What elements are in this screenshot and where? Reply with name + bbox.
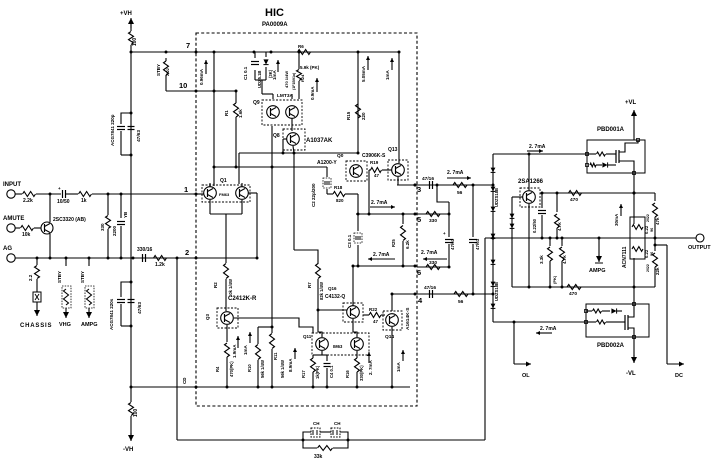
svg-text:4.7k: 4.7k xyxy=(562,255,567,264)
svg-text:FM63: FM63 xyxy=(219,192,230,197)
svg-text:OL: OL xyxy=(522,373,530,379)
svg-text:C3 0.1: C3 0.1 xyxy=(347,234,352,248)
svg-text:6.2k: 6.2k xyxy=(405,240,410,249)
svg-text:4.7k: 4.7k xyxy=(557,222,562,231)
svg-text:330: 330 xyxy=(429,260,437,266)
svg-text:YB: YB xyxy=(123,211,128,218)
svg-text:Q13: Q13 xyxy=(388,147,398,153)
svg-text:R22: R22 xyxy=(369,307,378,312)
svg-text:CH: CH xyxy=(313,421,320,426)
svg-text:R11: R11 xyxy=(273,352,278,360)
svg-text:R15: R15 xyxy=(346,111,351,120)
svg-text:30mA: 30mA xyxy=(614,213,619,226)
svg-text:R7: R7 xyxy=(307,282,312,288)
svg-text:22k: 22k xyxy=(655,267,660,275)
svg-text:2.2k: 2.2k xyxy=(23,198,33,204)
svg-text:1mA: 1mA xyxy=(243,344,248,355)
svg-text:47/16: 47/16 xyxy=(424,285,436,291)
svg-text:330: 330 xyxy=(429,218,437,224)
svg-text:STBY: STBY xyxy=(80,271,85,283)
svg-text:+VH: +VH xyxy=(120,11,132,17)
svg-text:47/63: 47/63 xyxy=(450,238,455,250)
svg-text:-VH: -VH xyxy=(123,447,133,453)
svg-text:33k: 33k xyxy=(314,454,323,460)
svg-text:CH: CH xyxy=(334,421,341,426)
svg-text:R25: R25 xyxy=(391,239,396,247)
svg-text:DC: DC xyxy=(675,373,683,379)
svg-text:HIC: HIC xyxy=(265,7,284,19)
svg-text:2200: 2200 xyxy=(112,225,117,236)
svg-text:C4132-Q: C4132-Q xyxy=(325,294,345,300)
svg-text:ACN7111: ACN7111 xyxy=(622,246,628,268)
svg-text:2. 7mA: 2. 7mA xyxy=(371,200,388,206)
svg-text:56: 56 xyxy=(458,299,464,305)
svg-text:5: 5 xyxy=(417,215,421,224)
svg-text:C2412K-R: C2412K-R xyxy=(228,296,257,302)
svg-text:R19: R19 xyxy=(370,160,379,165)
svg-text:47/63: 47/63 xyxy=(475,238,480,250)
svg-text:47: 47 xyxy=(373,319,379,324)
svg-text:R1: R1 xyxy=(224,110,229,116)
svg-text:10/50: 10/50 xyxy=(57,199,70,205)
svg-text:330/16: 330/16 xyxy=(137,247,153,253)
svg-text:+: + xyxy=(58,186,61,191)
svg-text:Q16: Q16 xyxy=(328,286,337,291)
svg-text:PBD002A: PBD002A xyxy=(597,343,625,349)
svg-text:2. 7mA: 2. 7mA xyxy=(540,326,557,332)
svg-text:330(PK): 330(PK) xyxy=(359,365,364,381)
svg-text:2SA1266: 2SA1266 xyxy=(518,179,544,185)
svg-text:+: + xyxy=(443,231,446,236)
svg-text:2: 2 xyxy=(185,248,189,257)
svg-text:(1F1B91a): (1F1B91a) xyxy=(292,72,296,90)
svg-text:1mA: 1mA xyxy=(272,69,277,80)
svg-text:C3906K-S: C3906K-S xyxy=(362,153,386,159)
svg-text:7: 7 xyxy=(186,41,190,50)
svg-text:VHG: VHG xyxy=(59,322,71,328)
svg-text:56k 1/4W: 56k 1/4W xyxy=(280,360,285,378)
svg-text:3.3k: 3.3k xyxy=(539,255,544,264)
svg-text:R17: R17 xyxy=(301,370,306,378)
svg-text:R2: R2 xyxy=(213,282,218,288)
svg-text:470(PK): 470(PK) xyxy=(229,361,234,377)
svg-text:56k 1/4W: 56k 1/4W xyxy=(260,360,265,378)
svg-text:2022: 2022 xyxy=(646,264,650,272)
svg-text:220: 220 xyxy=(361,112,366,120)
svg-text:6: 6 xyxy=(417,268,421,277)
svg-text:ACG7841 220p: ACG7841 220p xyxy=(110,114,115,146)
svg-text:ACG7841 220s: ACG7841 220s xyxy=(109,298,114,330)
svg-text:PBD001A: PBD001A xyxy=(597,127,625,133)
svg-text:Q9: Q9 xyxy=(253,100,260,106)
svg-text:0.22: 0.22 xyxy=(644,249,649,258)
svg-text:Q8: Q8 xyxy=(273,133,280,139)
svg-text:820: 820 xyxy=(336,198,344,203)
svg-text:2. 7mA: 2. 7mA xyxy=(368,359,373,375)
svg-text:STBY: STBY xyxy=(156,64,161,76)
svg-text:STBY: STBY xyxy=(57,271,62,283)
svg-text:1.9mA: 1.9mA xyxy=(232,344,237,358)
svg-text:1k(PK): 1k(PK) xyxy=(315,365,320,379)
svg-text:UDZ5.1B: UDZ5.1B xyxy=(257,71,262,88)
svg-text:2. 7mA: 2. 7mA xyxy=(421,250,438,256)
svg-text:2. 7mA: 2. 7mA xyxy=(529,144,546,150)
svg-text:R4: R4 xyxy=(215,366,220,372)
svg-text:R6: R6 xyxy=(298,44,304,49)
svg-text:56: 56 xyxy=(457,190,463,196)
svg-text:0.96mA: 0.96mA xyxy=(199,68,204,85)
svg-text:47: 47 xyxy=(374,173,380,178)
svg-text:AMPG: AMPG xyxy=(81,322,98,328)
svg-text:CD: CD xyxy=(182,377,187,384)
svg-text:-VL: -VL xyxy=(626,371,636,377)
svg-text:2022: 2022 xyxy=(646,214,650,222)
svg-text:1: 1 xyxy=(184,185,188,194)
svg-text:C2 22p/200: C2 22p/200 xyxy=(311,183,316,207)
svg-text:5.05mA: 5.05mA xyxy=(361,65,366,82)
svg-text:2022: 2022 xyxy=(166,68,170,76)
svg-text:AG: AG xyxy=(3,246,12,252)
svg-text:2.2: 2.2 xyxy=(28,274,33,281)
svg-text:1mA: 1mA xyxy=(385,69,390,80)
svg-text:INPUT: INPUT xyxy=(3,182,21,188)
svg-text:330: 330 xyxy=(100,223,105,231)
svg-text:A1614K-S: A1614K-S xyxy=(405,307,411,330)
svg-text:10: 10 xyxy=(179,81,187,90)
svg-text:47/63: 47/63 xyxy=(137,302,143,314)
svg-text:2. 7mA: 2. 7mA xyxy=(447,170,464,176)
svg-text:CHASSIS: CHASSIS xyxy=(20,323,52,329)
svg-text:AMPG: AMPG xyxy=(589,268,606,274)
svg-text:A1200-Y: A1200-Y xyxy=(317,160,337,166)
svg-text:47/63: 47/63 xyxy=(136,130,142,142)
svg-text:1.6k: 1.6k xyxy=(238,109,243,118)
svg-text:Q14: Q14 xyxy=(385,334,394,340)
svg-text:A1037AK: A1037AK xyxy=(306,138,333,144)
svg-text:96: 96 xyxy=(650,228,654,232)
svg-text:R18: R18 xyxy=(334,185,343,190)
svg-text:+VL: +VL xyxy=(625,100,637,106)
svg-text:C1 0.1: C1 0.1 xyxy=(243,66,248,80)
svg-text:3: 3 xyxy=(417,185,421,194)
svg-text:0.22: 0.22 xyxy=(644,225,649,234)
svg-text:470: 470 xyxy=(570,197,578,203)
svg-text:470: 470 xyxy=(569,291,577,297)
svg-text:47k: 47k xyxy=(655,217,660,225)
svg-text:UDZS18B: UDZS18B xyxy=(494,188,499,207)
svg-text:Q3: Q3 xyxy=(205,313,210,320)
svg-text:5.9k (PK): 5.9k (PK) xyxy=(300,65,320,70)
svg-text:IM63: IM63 xyxy=(333,344,343,349)
svg-text:PA0009A: PA0009A xyxy=(262,22,288,28)
svg-text:10k 1/4W: 10k 1/4W xyxy=(228,279,233,297)
svg-text:0.9mA: 0.9mA xyxy=(310,86,315,100)
svg-text:1k: 1k xyxy=(81,198,87,204)
svg-text:8.9mA: 8.9mA xyxy=(288,358,293,372)
svg-text:1mA: 1mA xyxy=(396,361,401,372)
svg-text:R10: R10 xyxy=(247,364,252,372)
svg-text:OUTPUT: OUTPUT xyxy=(688,245,711,251)
svg-text:10k: 10k xyxy=(22,232,31,238)
svg-text:UDZS18B: UDZS18B xyxy=(494,282,499,301)
svg-text:100: 100 xyxy=(132,38,138,47)
svg-text:Q0: Q0 xyxy=(337,153,344,159)
svg-text:2SC3320 (AB): 2SC3320 (AB) xyxy=(53,217,86,223)
svg-text:470 1/4W: 470 1/4W xyxy=(284,71,289,88)
svg-text:(PK): (PK) xyxy=(552,275,557,284)
svg-text:2. 7mA: 2. 7mA xyxy=(373,252,390,258)
svg-text:R24: R24 xyxy=(300,74,305,82)
svg-text:LMT3A: LMT3A xyxy=(277,93,294,99)
svg-text:0.22/50: 0.22/50 xyxy=(532,218,537,233)
svg-text:82k 1/4W: 82k 1/4W xyxy=(319,282,324,300)
svg-text:R16: R16 xyxy=(345,370,350,378)
svg-text:AMUTE: AMUTE xyxy=(3,216,24,222)
svg-text:1.2k: 1.2k xyxy=(155,262,165,268)
svg-text:Q1: Q1 xyxy=(220,178,227,184)
svg-text:100: 100 xyxy=(133,409,139,418)
svg-text:Q11: Q11 xyxy=(303,334,312,339)
svg-text:C4 0.1: C4 0.1 xyxy=(329,365,334,378)
